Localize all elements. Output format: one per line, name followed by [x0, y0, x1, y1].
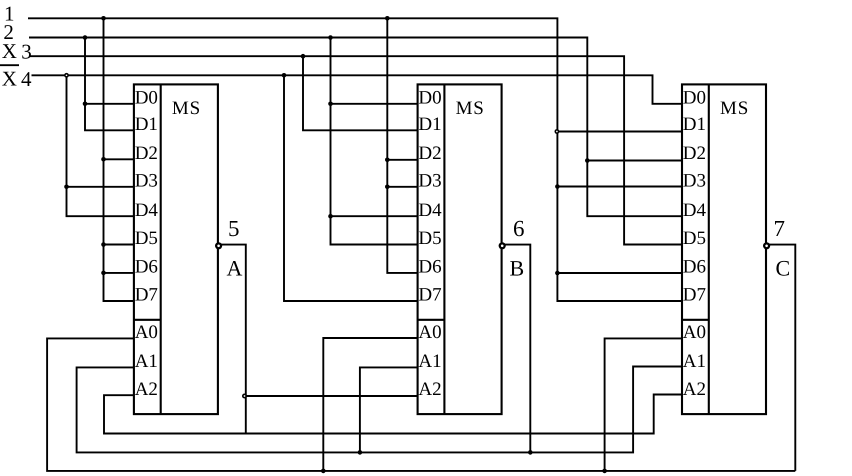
svg-text:7: 7 [774, 216, 786, 241]
wire U3 A0 riser [605, 338, 682, 471]
wire U1 D5 stub [104, 244, 134, 246]
junction dot U2 D0 [328, 102, 333, 107]
wire U1 D6 stub [104, 272, 134, 274]
svg-text:D6: D6 [135, 257, 158, 278]
svg-text:D0: D0 [135, 87, 158, 108]
junction dot A0 bus / U2 riser [321, 469, 326, 474]
wire net A1 bus: U1 A1 loop, rail, U3 A1 riser [77, 367, 682, 453]
svg-text:A0: A0 [683, 322, 706, 343]
wire U3 D1 stub [557, 131, 682, 133]
svg-text:D2: D2 [683, 143, 706, 164]
svg-text:A0: A0 [418, 322, 441, 343]
svg-text:X: X [2, 67, 17, 91]
wire U3 D3 stub [557, 186, 682, 188]
junction dot U3 D2 [585, 158, 590, 163]
svg-text:A2: A2 [683, 379, 706, 400]
svg-text:D1: D1 [418, 114, 441, 135]
wire net4 riser to U2 D7 [284, 75, 418, 301]
svg-text:3: 3 [21, 39, 32, 63]
wire U1 D0 stub [85, 103, 134, 105]
junction dot A0 bus / U3 riser [602, 469, 607, 474]
wire net3 riser to U2 D1 [303, 56, 418, 130]
svg-text:A1: A1 [683, 351, 706, 372]
junction dot A1 bus / U2 riser [358, 450, 363, 455]
wire output A branch to U2 A2 [246, 395, 418, 397]
wire net2 rail, drops to U3 D4 [29, 38, 682, 217]
wire net4 riser to U1 D3/D4 [67, 75, 134, 216]
svg-text:5: 5 [228, 216, 240, 241]
junction ring output A / U2 A2 branch [242, 394, 247, 399]
svg-text:D2: D2 [418, 143, 441, 164]
wire U1 D3 stub [67, 186, 134, 188]
svg-text:MS: MS [720, 98, 749, 119]
svg-text:D6: D6 [683, 257, 706, 278]
output terminal pin 6 of U2 [499, 242, 506, 249]
svg-text:MS: MS [456, 98, 485, 119]
wire U2 A1 riser [360, 367, 418, 452]
svg-text:A: A [227, 256, 243, 281]
svg-text:A0: A0 [135, 322, 158, 343]
multiplexer U2 body [418, 84, 502, 414]
multiplexer U3 D/A section separator [682, 319, 709, 321]
junction dot net2/U2 riser [328, 35, 333, 40]
wire net1 riser to U2 D2/D3/D6 [387, 18, 417, 273]
svg-text:4: 4 [21, 67, 32, 91]
multiplexer U2 pin-strip divider [443, 84, 445, 414]
wire net A0 bus: U1 A0 loop and bottom rail [47, 338, 795, 471]
wire U2 D2 stub [387, 159, 417, 161]
multiplexer U1 body [134, 84, 218, 414]
svg-text:6: 6 [513, 216, 525, 241]
junction dot U1 D6 [101, 271, 106, 276]
svg-text:D2: D2 [135, 143, 158, 164]
wire output C of U3 down to A0 bus [766, 245, 795, 471]
overbar of X (net 4) [0, 64, 19, 66]
svg-text:D1: D1 [683, 114, 706, 135]
wire U3 D2 stub [587, 160, 682, 162]
wire U2 D4 stub [331, 215, 418, 217]
wire net3 rail, drops to U3 D5 [30, 56, 682, 244]
junction dot U1 D3 [64, 185, 69, 190]
junction ring U3 D1 [555, 129, 560, 134]
junction dot A1 bus / output B [528, 450, 533, 455]
junction dot U3 D6 [555, 271, 560, 276]
junction dot U2 D3 [385, 185, 390, 190]
svg-text:D5: D5 [418, 228, 441, 249]
svg-text:D1: D1 [135, 114, 158, 135]
junction dot U1 D5 [101, 242, 106, 247]
svg-text:D3: D3 [135, 170, 158, 191]
wire net2 riser to U2 D0/D4/D5 [331, 38, 418, 245]
wire net A2 bus: U1 A2 loop, rail, U3 A2 riser [104, 395, 682, 434]
junction dot U3 D3 [555, 184, 560, 189]
wire U1 D2 stub [104, 158, 134, 160]
wire output A of U1 down to A2 bus [218, 245, 246, 434]
svg-text:A2: A2 [135, 379, 158, 400]
junction dot net2/U1 riser [83, 35, 88, 40]
output terminal pin 7 of U3 [763, 242, 770, 249]
svg-text:D3: D3 [683, 170, 706, 191]
junction dot net4/U2 riser [282, 73, 287, 78]
wire U3 D6 stub [557, 272, 682, 274]
junction dot U2 D4 [328, 214, 333, 219]
wire net4 rail, drops to U3 D0 [32, 75, 683, 104]
junction dot net1/U2 riser [385, 16, 390, 21]
svg-text:D4: D4 [683, 200, 707, 221]
svg-text:D3: D3 [418, 170, 441, 191]
junction dot net1/U1 riser [101, 16, 106, 21]
junction dot U1 D0 [83, 102, 88, 107]
svg-text:D0: D0 [418, 87, 441, 108]
wire net2 riser to U1 D0/D1 [85, 38, 134, 131]
junction dot U2 D2 [385, 158, 390, 163]
multiplexer U2 D/A section separator [418, 319, 445, 321]
wire U2 A0 riser [323, 338, 417, 471]
junction ring net4/U1 riser [64, 73, 69, 78]
svg-text:D7: D7 [683, 285, 706, 306]
svg-text:D4: D4 [135, 200, 159, 221]
junction dot net3/U2 riser [301, 54, 306, 59]
svg-text:D5: D5 [135, 228, 158, 249]
multiplexer U1 pin-strip divider [160, 84, 162, 414]
svg-text:D7: D7 [418, 285, 441, 306]
wire U2 D3 stub [387, 186, 417, 188]
wire U2 D0 stub [331, 103, 418, 105]
svg-text:D6: D6 [418, 257, 441, 278]
output terminal pin 5 of U1 [215, 242, 222, 249]
multiplexer U3 pin-strip divider [708, 84, 710, 414]
svg-text:C: C [776, 256, 791, 281]
svg-text:A2: A2 [418, 379, 441, 400]
svg-text:A1: A1 [418, 351, 441, 372]
svg-text:D5: D5 [683, 228, 706, 249]
svg-text:A1: A1 [135, 351, 158, 372]
wire output B of U2 down to A1 bus [502, 245, 531, 453]
wire net1 rail, drops to U3 D7 [28, 18, 682, 301]
svg-text:D0: D0 [683, 87, 706, 108]
svg-text:X: X [2, 39, 17, 63]
svg-text:MS: MS [172, 98, 201, 119]
wire net1 riser to U1 D2/D5/D6/D7 [104, 18, 134, 301]
multiplexer U1 D/A section separator [134, 319, 161, 321]
svg-text:B: B [510, 256, 525, 281]
multiplexer U3 body [682, 84, 766, 414]
svg-text:D4: D4 [418, 200, 442, 221]
svg-text:D7: D7 [135, 285, 158, 306]
junction dot U1 D2 [101, 157, 106, 162]
